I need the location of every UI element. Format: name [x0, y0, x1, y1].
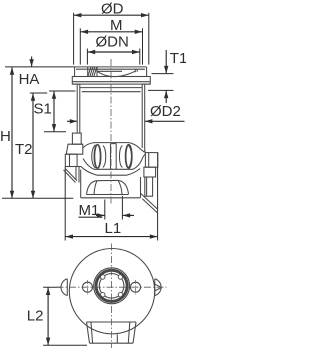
flange bottom: [72, 83, 80, 85]
right diagonals: [141, 194, 158, 210]
cap left edge: [74, 67, 76, 77]
barrel bore end arcs: [92, 145, 96, 168]
left cone diagonals: [64, 170, 76, 183]
svg-text:T2: T2: [15, 141, 33, 158]
dimension M1: [79, 196, 135, 220]
cap flange: [72, 77, 150, 85]
dimension ØD2: [67, 103, 185, 123]
center rib: [110, 144, 112, 170]
svg-text:L1: L1: [105, 220, 122, 237]
hatch band in cap: [87, 67, 89, 77]
svg-text:HA: HA: [19, 71, 40, 88]
cap right small lines: [134, 69, 136, 72]
svg-text:ØD: ØD: [101, 1, 124, 18]
dimension L2: [27, 287, 87, 345]
ears: [61, 279, 67, 296]
dimension M: [80, 17, 142, 64]
dome port: [87, 180, 129, 194]
centerlines bottom view: [111, 244, 113, 348]
svg-text:T1: T1: [170, 50, 186, 67]
dimension ØD: [74, 1, 149, 65]
bottom reference line of H/T2: [2, 197, 73, 199]
body sides: [76, 84, 78, 133]
cap recess floor: [76, 68, 145, 70]
dimension H: [0, 67, 14, 198]
dimension HA: [5, 57, 75, 94]
outer thin circle: [94, 268, 130, 304]
part bottom face: [81, 197, 141, 199]
svg-text:M1: M1: [79, 202, 100, 219]
dimension L1: [65, 153, 157, 241]
cap top face: [75, 66, 147, 68]
lower housing: [81, 167, 97, 176]
big circle: [69, 249, 154, 334]
svg-text:M: M: [110, 17, 123, 34]
dimension T1: [148, 50, 187, 103]
foot: [87, 321, 137, 323]
dimension T2 (shares line with HA bottom arrow): [15, 93, 35, 198]
svg-text:ØDN: ØDN: [96, 34, 129, 51]
svg-text:H: H: [0, 128, 11, 145]
svg-text:ØD2: ØD2: [150, 103, 181, 120]
svg-text:S1: S1: [34, 100, 52, 117]
castellated bore: [99, 274, 124, 299]
dimension ØDN: [87, 34, 139, 65]
thick ring: [96, 270, 127, 301]
svg-text:L2: L2: [27, 308, 44, 325]
cap right edge: [146, 67, 148, 77]
left connector blocks: [72, 133, 81, 144]
cap slot smile: [97, 70, 122, 72]
small holes: [83, 282, 93, 292]
dimension S1: [34, 91, 76, 132]
body seams: [80, 87, 142, 89]
O-ring seals: [94, 145, 100, 168]
centerline top view: [110, 59, 112, 204]
barrel: [94, 142, 129, 144]
right connector: funnel + stepped stack: [144, 133, 147, 152]
